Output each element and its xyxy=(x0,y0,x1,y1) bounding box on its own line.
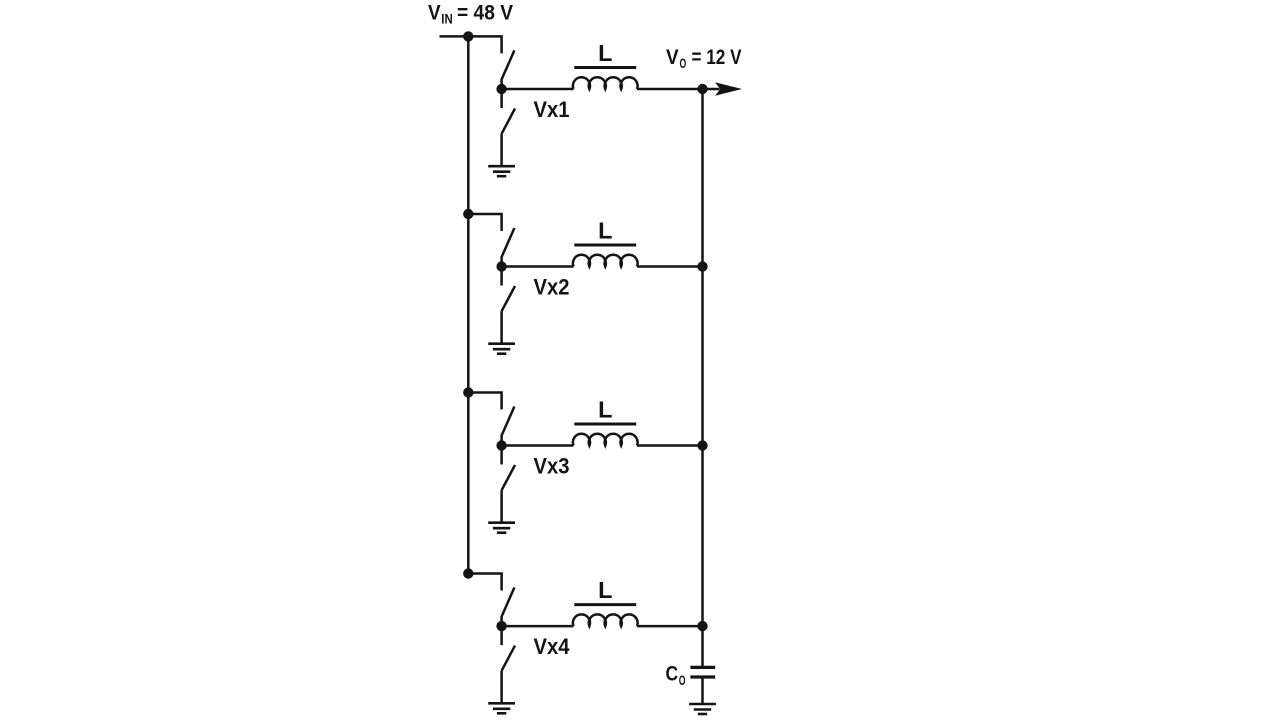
capacitor CO plates xyxy=(690,667,715,677)
inductor L phase 1 overline xyxy=(574,66,636,69)
wire top input lead xyxy=(440,35,502,38)
inductor L phase 4 overline xyxy=(574,603,636,606)
svg-text:Vx3: Vx3 xyxy=(534,454,570,479)
wire Vx4 to inductor L xyxy=(502,625,574,628)
label net VO = 12 V xyxy=(666,46,742,71)
svg-text:= 48 V: = 48 V xyxy=(457,2,513,25)
wire tap 4 to switch S4H elbow xyxy=(468,572,501,590)
wire inductor L to output rail phase 4 xyxy=(637,625,703,628)
wire Vx1 to inductor L xyxy=(502,88,574,91)
svg-text:L: L xyxy=(598,397,612,423)
switch S4 low-side blade xyxy=(502,626,515,671)
node Vx1 xyxy=(496,84,506,94)
ground phase 3 xyxy=(488,523,515,533)
node Vx3 xyxy=(496,440,506,450)
wire S2L to ground xyxy=(500,311,503,342)
wire CO to ground xyxy=(701,679,704,703)
arrow output current direction xyxy=(715,82,742,95)
svg-text:Vx2: Vx2 xyxy=(534,275,570,300)
switch S4 high-side blade xyxy=(502,588,515,627)
switch S1 low-side blade xyxy=(502,89,515,134)
svg-text:L: L xyxy=(598,40,612,66)
node Vx4 xyxy=(496,621,506,631)
svg-text:C: C xyxy=(666,663,679,686)
label capacitor CO xyxy=(666,663,686,689)
node rail tap 3 xyxy=(463,387,473,397)
svg-text:O: O xyxy=(680,56,687,71)
wire inductor L to output rail phase 2 xyxy=(637,265,703,268)
wire inductor L to output rail phase 1 xyxy=(637,88,703,91)
wire S4L to ground xyxy=(500,671,503,702)
inductor L phase 2 overline xyxy=(574,244,636,247)
inductor L phase 3 overline xyxy=(574,423,636,426)
ground output xyxy=(689,704,716,714)
wire corner to switch S1H stub xyxy=(500,35,503,53)
node output junction phase 1 xyxy=(697,84,707,94)
inductor L phase 2 xyxy=(573,255,638,267)
wire S3L to ground xyxy=(500,490,503,521)
wire inductor L to output rail phase 3 xyxy=(637,444,703,447)
node rail tap 4 xyxy=(463,568,473,578)
ground phase 1 xyxy=(488,166,515,176)
ground phase 4 xyxy=(488,703,515,713)
svg-text:L: L xyxy=(598,218,612,244)
wire S1L to ground xyxy=(500,134,503,165)
inductor L phase 4 xyxy=(573,614,638,626)
label net VIN = 48 V xyxy=(428,2,513,27)
node Vx2 xyxy=(496,261,506,271)
switch S2 low-side blade xyxy=(502,267,515,312)
switch S3 high-side blade xyxy=(502,407,515,446)
svg-text:Vx4: Vx4 xyxy=(534,634,571,659)
node rail tap 2 xyxy=(463,209,473,219)
switch S1 high-side blade xyxy=(502,50,515,89)
node output junction phase 3 xyxy=(697,440,707,450)
wire Vx2 to inductor L xyxy=(502,265,574,268)
wire output rail (VO bus) xyxy=(701,89,704,666)
svg-text:V: V xyxy=(428,2,441,25)
svg-text:IN: IN xyxy=(441,12,452,27)
node output junction phase 4 xyxy=(697,621,707,631)
svg-text:Vx1: Vx1 xyxy=(534,97,570,122)
wire input rail (VIN bus) xyxy=(467,36,470,573)
wire tap 3 to switch S3H elbow xyxy=(468,391,501,409)
inductor L phase 1 xyxy=(573,77,638,89)
ground phase 2 xyxy=(488,344,515,354)
node input junction tap 1 xyxy=(463,31,473,41)
svg-text:L: L xyxy=(598,577,612,603)
svg-text:V: V xyxy=(666,46,679,69)
wire output arrow lead xyxy=(703,88,720,91)
inductor L phase 3 xyxy=(573,434,638,446)
wire Vx3 to inductor L xyxy=(502,444,574,447)
switch S3 low-side blade xyxy=(502,446,515,491)
svg-text:= 12 V: = 12 V xyxy=(692,46,742,69)
svg-text:O: O xyxy=(679,673,686,688)
switch S2 high-side blade xyxy=(502,228,515,267)
wire tap 2 to switch S2H elbow xyxy=(468,213,501,231)
node output junction phase 2 xyxy=(697,261,707,271)
